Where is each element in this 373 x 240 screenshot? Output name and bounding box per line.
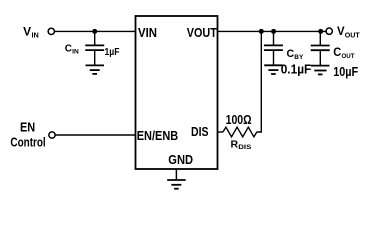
node junction CIN	[92, 29, 97, 34]
node junction COUT	[318, 29, 323, 34]
node VOUT terminal	[326, 28, 332, 34]
svg-text:DIS: DIS	[238, 145, 251, 151]
svg-text:10µF: 10µF	[333, 65, 358, 79]
node junction RDIS	[259, 29, 264, 34]
wire EN	[56, 134, 136, 136]
node junction CBY	[271, 29, 276, 34]
capacitor CIN	[85, 31, 104, 64]
svg-text:C: C	[333, 47, 341, 59]
label VIN	[23, 24, 39, 39]
ground CBY	[264, 65, 283, 74]
svg-text:IN: IN	[32, 30, 39, 39]
ground COUT	[311, 66, 330, 75]
svg-text:0.1µF: 0.1µF	[281, 63, 312, 77]
node VIN terminal	[48, 28, 54, 34]
svg-text:100Ω: 100Ω	[226, 112, 252, 127]
wire DIS to resistor	[218, 131, 224, 133]
resistor RDIS	[223, 127, 257, 137]
svg-text:VIN: VIN	[138, 25, 157, 40]
label EN Control	[10, 119, 45, 149]
wire input rail	[55, 30, 136, 32]
svg-text:C: C	[65, 42, 73, 54]
svg-text:GND: GND	[168, 152, 193, 167]
label COUT	[333, 47, 354, 60]
svg-text:OUT: OUT	[342, 53, 355, 60]
svg-text:R: R	[231, 138, 239, 150]
ground GND pin	[167, 169, 186, 189]
label CBY	[287, 48, 304, 61]
wire resistor to node	[257, 31, 262, 132]
capacitor COUT	[311, 31, 330, 65]
svg-text:BY: BY	[294, 54, 304, 61]
svg-text:1µF: 1µF	[105, 46, 120, 58]
label VOUT	[337, 24, 360, 39]
op-amp U1 regulator body	[136, 16, 218, 169]
svg-text:EN: EN	[20, 119, 35, 134]
capacitor CBY	[264, 31, 283, 64]
node EN terminal	[49, 132, 55, 138]
svg-text:V: V	[337, 24, 345, 38]
svg-text:VOUT: VOUT	[187, 25, 217, 40]
label RDIS	[231, 138, 252, 151]
svg-text:V: V	[23, 24, 31, 38]
wire output rail	[218, 30, 327, 32]
svg-text:IN: IN	[72, 48, 79, 55]
svg-text:C: C	[287, 48, 295, 60]
label CIN	[65, 42, 79, 55]
svg-text:Control: Control	[10, 135, 45, 150]
ground CIN	[86, 65, 105, 74]
svg-text:OUT: OUT	[345, 30, 360, 39]
svg-text:DIS: DIS	[191, 125, 209, 139]
svg-text:EN/ENB: EN/ENB	[137, 129, 179, 143]
